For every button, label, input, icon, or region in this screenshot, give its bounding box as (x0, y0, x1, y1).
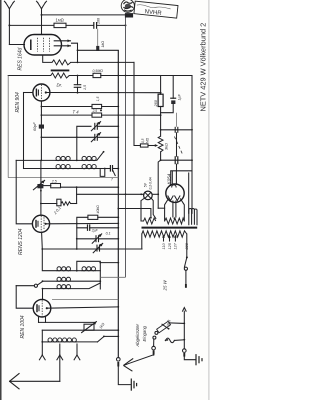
svg-text:T 4: T 4 (73, 110, 80, 115)
wire link over coil (77, 261, 101, 289)
wire cap2u branch (77, 224, 87, 228)
node sw up (42, 280, 44, 282)
wire earth run (10, 380, 60, 382)
wire bus1 ground run (118, 367, 130, 385)
mains jack pin (183, 353, 185, 357)
choke Dr zigzag (51, 73, 70, 78)
wire y239 (77, 238, 96, 240)
wire mains jack (183, 349, 187, 353)
wire RENS grid lead (16, 160, 32, 223)
capacitor plate bar (51, 69, 70, 71)
svg-text:125: 125 (168, 242, 172, 249)
rheostat 1kΩ (82, 322, 106, 333)
wire top rail y15 (42, 14, 126, 16)
switch blade ant (98, 337, 104, 342)
wire y203.5 (41, 203, 57, 205)
wire cap1u bottom L (161, 104, 174, 113)
node y330 bus1 (117, 329, 119, 331)
svg-text:Dr.: Dr. (57, 83, 63, 88)
wire row3 y288.6 (43, 288, 58, 290)
antenna A2 (37, 1, 47, 9)
svg-text:RES 164d: RES 164d (18, 47, 24, 70)
wire RENS cathode down (41, 232, 44, 249)
node y194 bus2 (125, 193, 127, 195)
wire rowA to bus (71, 61, 134, 63)
node y250 bus1 (117, 248, 119, 250)
node y75 bus2 (125, 75, 127, 77)
wire x160 to rect lead (158, 207, 164, 209)
node y239 bus1 (117, 238, 119, 240)
jack fork F3 (74, 344, 80, 360)
node y194 x141 (140, 193, 142, 195)
svg-text:REN 904: REN 904 (15, 92, 21, 113)
trimmer cap C-v2 (91, 133, 100, 142)
K054 enclosure box (171, 171, 192, 214)
svg-text:260: 260 (154, 99, 158, 107)
wire y262 to bus (100, 262, 118, 264)
wire x160 top (160, 76, 162, 95)
tap 127 (174, 235, 178, 250)
wire REN1004 anode to bus (47, 307, 119, 308)
wire REN904 anode line y92.7 (46, 92, 161, 94)
svg-text:REN 1004: REN 1004 (20, 315, 26, 338)
wire y50 to bus1 corner (78, 49, 119, 51)
svg-text:1,5: 1,5 (96, 96, 100, 101)
coil L3a (57, 270, 71, 272)
resistor R-rowA zigzag (52, 60, 71, 65)
node mains y323 (183, 323, 185, 325)
resistor 0,5 MΩ (93, 69, 104, 78)
shield box left edge (7, 76, 9, 178)
node y137 bus1 (117, 136, 119, 138)
wire RES164d cathode down (43, 55, 52, 62)
svg-text:100: 100 (97, 18, 101, 24)
jack fork F2 (57, 344, 63, 381)
node ant1 junction (8, 24, 10, 26)
node y75 bus1 (117, 75, 119, 77)
wire lamp left leg (141, 198, 145, 221)
wire primary left riser (141, 234, 143, 249)
wire x134 drop (134, 62, 140, 145)
wire row3 end (71, 283, 100, 289)
svg-text:60pF: 60pF (33, 122, 37, 131)
wire coil row1 left (16, 159, 56, 161)
wire y129.8 (161, 129, 192, 131)
wire trim link (175, 113, 177, 127)
node y207 bus1 (117, 208, 119, 210)
trimmer cap C-v4 (93, 243, 103, 252)
node y115 bus1 (117, 114, 119, 116)
coil L2a (56, 168, 70, 170)
page right border (208, 0, 210, 400)
node x41 y115 (41, 114, 43, 116)
wire y330 (42, 329, 118, 331)
shield box bottom edge (8, 177, 118, 179)
wire REN904 grid lead (24, 92, 33, 94)
svg-text:2,5: 2,5 (51, 179, 57, 183)
node y106 bus1 (117, 106, 119, 108)
shield line y299 (52, 299, 118, 301)
wire tap220 down (186, 234, 188, 257)
wire y203.5 right (71, 203, 77, 205)
band switch pivot (34, 284, 37, 287)
node y187 bus1 (117, 186, 119, 188)
node x42 y342 (41, 341, 43, 343)
node rail y25 at bus2 (125, 24, 127, 26)
wire x160 lower (160, 152, 162, 160)
wire y75 mid (69, 75, 93, 77)
node y92 bus1 (117, 92, 119, 94)
wire y106 right (102, 106, 119, 108)
resistor 1kΩ anode load (96, 29, 105, 51)
svg-text:MΩ: MΩ (145, 137, 149, 143)
wire y126 stub (77, 126, 91, 137)
tube RES164d pill (24, 35, 71, 56)
wire rect anode lead left (165, 199, 169, 221)
svg-text:0,2-0,4A: 0,2-0,4A (148, 176, 152, 189)
wire bus1 vertical (117, 50, 119, 358)
node y227 bus1 (117, 227, 119, 229)
jack pin (153, 350, 155, 354)
winding W1 lamp 4V (144, 218, 156, 224)
node y92 x160 (160, 92, 162, 94)
coil L3b (82, 270, 96, 272)
wire lamp right leg (151, 198, 156, 218)
resistor 0,5 MΩ grid leak (140, 137, 149, 147)
dashed coupling link (174, 137, 182, 155)
jack socket circle (152, 346, 156, 350)
wire bus2 vertical (125, 15, 127, 277)
coil L1b (82, 159, 96, 161)
mains socket chevron (183, 308, 187, 312)
NVHR stamp (121, 0, 178, 19)
capacitor padder (100, 165, 118, 182)
resistor 1 MΩ (54, 18, 66, 28)
wire y185.6 (43, 185, 50, 187)
resistor 2600 field (154, 94, 163, 107)
capacitor on y129.8 (175, 127, 178, 133)
wire riser to R 40k (77, 217, 88, 223)
wire row2 to cap (97, 168, 110, 170)
wire y137 (41, 136, 94, 138)
coil L2b (82, 168, 96, 170)
node y137 x77 (76, 136, 78, 138)
wire x41 below cap (40, 129, 42, 161)
wire grid return x23.5 (23, 93, 25, 169)
wire RENS anode line (46, 222, 119, 224)
resistor bias lower (92, 113, 102, 117)
node y126 bus1 (117, 125, 119, 127)
trimmer cap C-v3 (92, 234, 102, 243)
wire lamp out to x158 (152, 193, 158, 195)
node anode-RC (77, 49, 79, 51)
svg-text:RENS 1204: RENS 1204 (18, 228, 24, 255)
node x41 y137 (41, 136, 43, 138)
wire heater stubs (39, 316, 46, 322)
wire antenna A1 stem (8, 9, 10, 45)
node y250 x77 (76, 248, 78, 250)
trimmer cap C-v1 (91, 122, 100, 131)
svg-text:Abgekürzter: Abgekürzter (135, 323, 140, 347)
tube REN1004 (33, 299, 51, 317)
capacitor 1,5 on x77 (74, 76, 87, 93)
wire y239 to bus (99, 238, 119, 240)
wire cap2u to bus (90, 227, 119, 229)
wire rect filament leads down (173, 201, 176, 217)
node x77 y239 (76, 238, 78, 240)
mains plug pin (185, 284, 187, 288)
resistor wavy y203.5 (61, 202, 71, 206)
node x41 y106 (41, 106, 43, 108)
wire row2 to x100 (71, 280, 100, 282)
wire wiper to pot (148, 144, 158, 147)
coil L6 ant (48, 341, 76, 343)
capacitor 100pF (94, 18, 101, 29)
wire row2 mid (71, 168, 82, 170)
svg-text:127: 127 (174, 242, 178, 249)
wire y115 left (41, 114, 92, 116)
svg-text:110: 110 (162, 243, 166, 250)
switch blade row1 (97, 152, 103, 160)
node y160.2 x192 (191, 159, 193, 161)
node row2 bus1 (117, 168, 119, 170)
tube RENS1204 (32, 215, 49, 232)
capacitor 2µF (88, 224, 99, 232)
node x158 y194 (157, 193, 159, 195)
node y307 bus1 (117, 306, 119, 308)
wire REN1004 feed (16, 286, 33, 309)
svg-text:2µF: 2µF (91, 229, 99, 233)
wire row1 mid (71, 159, 82, 161)
wire mains down (183, 311, 185, 349)
bus1 terminal circle (117, 358, 121, 362)
wire y75 left / shield box top (8, 75, 51, 77)
wire grid drop to REN1004 (42, 289, 44, 300)
wire coil to blade (76, 341, 98, 343)
antenna A1 (4, 1, 14, 9)
resistor small vert (57, 199, 61, 206)
node mains y339.6 (183, 339, 185, 341)
rectifier tube K054 (166, 184, 184, 202)
wire x76.6 drop (76, 187, 78, 203)
wire y126 to bus (97, 125, 118, 127)
wire y160.2 (161, 159, 192, 161)
capacitor 60pF (33, 122, 44, 131)
wire jack chain x153.6 (153, 339, 155, 346)
wire y137 to bus (97, 136, 118, 138)
jack fork F1 (39, 342, 45, 360)
label Abgekürzter Eingang (135, 323, 147, 347)
wire x41 y190-205 (40, 188, 42, 215)
node rowA x77 (77, 62, 79, 64)
wire y115 right (102, 114, 161, 116)
wire x77 down (76, 228, 78, 249)
wire right box edge (191, 76, 193, 214)
node y129.8 x192 (191, 129, 193, 131)
wire switch feed (16, 285, 34, 287)
node y115 x160 (160, 114, 162, 116)
node y217 bus1 (117, 216, 119, 218)
winding W2 HT (165, 218, 185, 224)
mains switch (184, 256, 188, 270)
node row1 x77 (76, 160, 78, 162)
wire x42 to coil row (42, 249, 57, 271)
node x41 y205.8 (40, 203, 42, 205)
node row1 x41 (41, 160, 43, 162)
svg-text:2,5: 2,5 (92, 109, 98, 113)
tap 125 (168, 235, 172, 250)
tap 110 (162, 235, 166, 250)
page left border (0, 0, 2, 400)
transformer core (142, 227, 198, 229)
node blade tip y336 (103, 336, 105, 338)
wire antenna A2 stem to tube grid (41, 9, 43, 35)
coil L4 (57, 280, 71, 282)
svg-text:0,5: 0,5 (141, 138, 145, 143)
wire rail y25 mid (66, 24, 93, 26)
node rowA bus1 (117, 62, 119, 64)
wire trimmer chain x41 (40, 160, 42, 184)
node blade tip (103, 151, 105, 153)
wire y106 left (41, 106, 92, 108)
node pickup y354.6 (153, 354, 155, 356)
resistor 40kΩ (88, 205, 100, 220)
wire heater tap y207.5 (118, 209, 151, 218)
wire coil row2 (24, 168, 57, 170)
pickup arrow (123, 355, 153, 371)
ground G1 (131, 379, 136, 391)
svg-text:1µF: 1µF (178, 93, 182, 100)
node y250 x42 (41, 248, 43, 250)
capacitor 1µF (170, 76, 181, 105)
wire x77 link down (76, 137, 78, 160)
switch blade (37, 282, 42, 285)
svg-text:1kΩ: 1kΩ (101, 41, 105, 48)
wire y277 link (100, 276, 125, 278)
svg-text:7: 7 (111, 178, 113, 182)
wire rail y25 right (97, 24, 126, 26)
wire mains to ground (184, 357, 195, 360)
svg-text:Eingang: Eingang (142, 325, 147, 341)
node y262 x100 (99, 262, 101, 264)
plug pin bus1 (117, 362, 119, 367)
wire R40k to bus (98, 216, 119, 218)
wire y187 to bus (61, 186, 119, 188)
wire rect filament tops (172, 171, 176, 185)
wire row1 end (96, 270, 100, 272)
wire y250 long (42, 248, 142, 250)
primary winding zigzag (142, 231, 187, 237)
node x41 y190.8 (40, 190, 42, 192)
volume pot with mains switch (153, 319, 184, 339)
node x160 y160.2 (160, 159, 162, 161)
node y336 bus1 (117, 336, 119, 338)
wire y336 to bus (104, 335, 118, 337)
node W2 centre tap (174, 218, 176, 220)
node ant2 junction (41, 14, 43, 16)
node x77 y271 (76, 270, 78, 272)
coil L5 (57, 288, 71, 290)
wire mains below switch (185, 270, 187, 283)
svg-text:40kΩ: 40kΩ (96, 205, 100, 214)
wire RES164d anode to x77 (72, 43, 78, 62)
wire rect anode lead right (181, 199, 185, 221)
svg-text:25 W: 25 W (163, 279, 168, 291)
node anode x77 (76, 223, 78, 225)
pilot lamp 5V (144, 176, 153, 199)
wire REN904 cathode down (40, 101, 42, 125)
wire heater line y322 (39, 321, 96, 323)
node sw dn (42, 288, 44, 290)
capacitor on y160.2 (175, 133, 178, 171)
svg-text:1MΩ: 1MΩ (56, 18, 64, 23)
ground G2 (196, 354, 202, 365)
node anode bus1 (117, 223, 119, 225)
wire row2 y281 (43, 280, 58, 282)
node lamp tap (150, 217, 152, 219)
svg-text:0,5MΩ: 0,5MΩ (93, 69, 104, 73)
resistor bias upper (92, 104, 102, 108)
coil L1a (56, 159, 70, 161)
wire y342 (42, 341, 48, 343)
wire y75 right long (101, 75, 192, 77)
wire row x71-77 (71, 270, 82, 272)
svg-text:3kΩ: 3kΩ (165, 143, 169, 150)
earth arrow (10, 373, 20, 389)
fuse loop (165, 338, 185, 343)
wire y194 lamp feed (77, 193, 144, 195)
node y262 bus1 (117, 262, 119, 264)
node row2 x100 (99, 280, 101, 282)
tube REN904 (33, 84, 50, 101)
svg-text:NETV 429 W Völkerbund 2: NETV 429 W Völkerbund 2 (199, 23, 208, 112)
wire x160 mid (160, 107, 162, 137)
resistor 2,5 (51, 179, 61, 188)
node y75 x77 (77, 75, 79, 77)
tap 220 (185, 242, 189, 250)
wire ant1 to tube cathode (9, 44, 24, 46)
svg-text:1,5: 1,5 (83, 85, 87, 90)
winding W3 rect filament (189, 209, 197, 225)
node y92 x77 (77, 92, 79, 94)
node x160 y129.8 (160, 129, 162, 131)
svg-text:0,1: 0,1 (106, 232, 111, 236)
node y187 x76.6 (76, 186, 78, 188)
svg-text:K054: K054 (167, 173, 172, 184)
wire x42 drop (41, 330, 43, 342)
potentiometer hum zigzag (158, 136, 163, 152)
wire rail y25 left (9, 24, 54, 26)
trimmer padder dark (33, 180, 44, 189)
